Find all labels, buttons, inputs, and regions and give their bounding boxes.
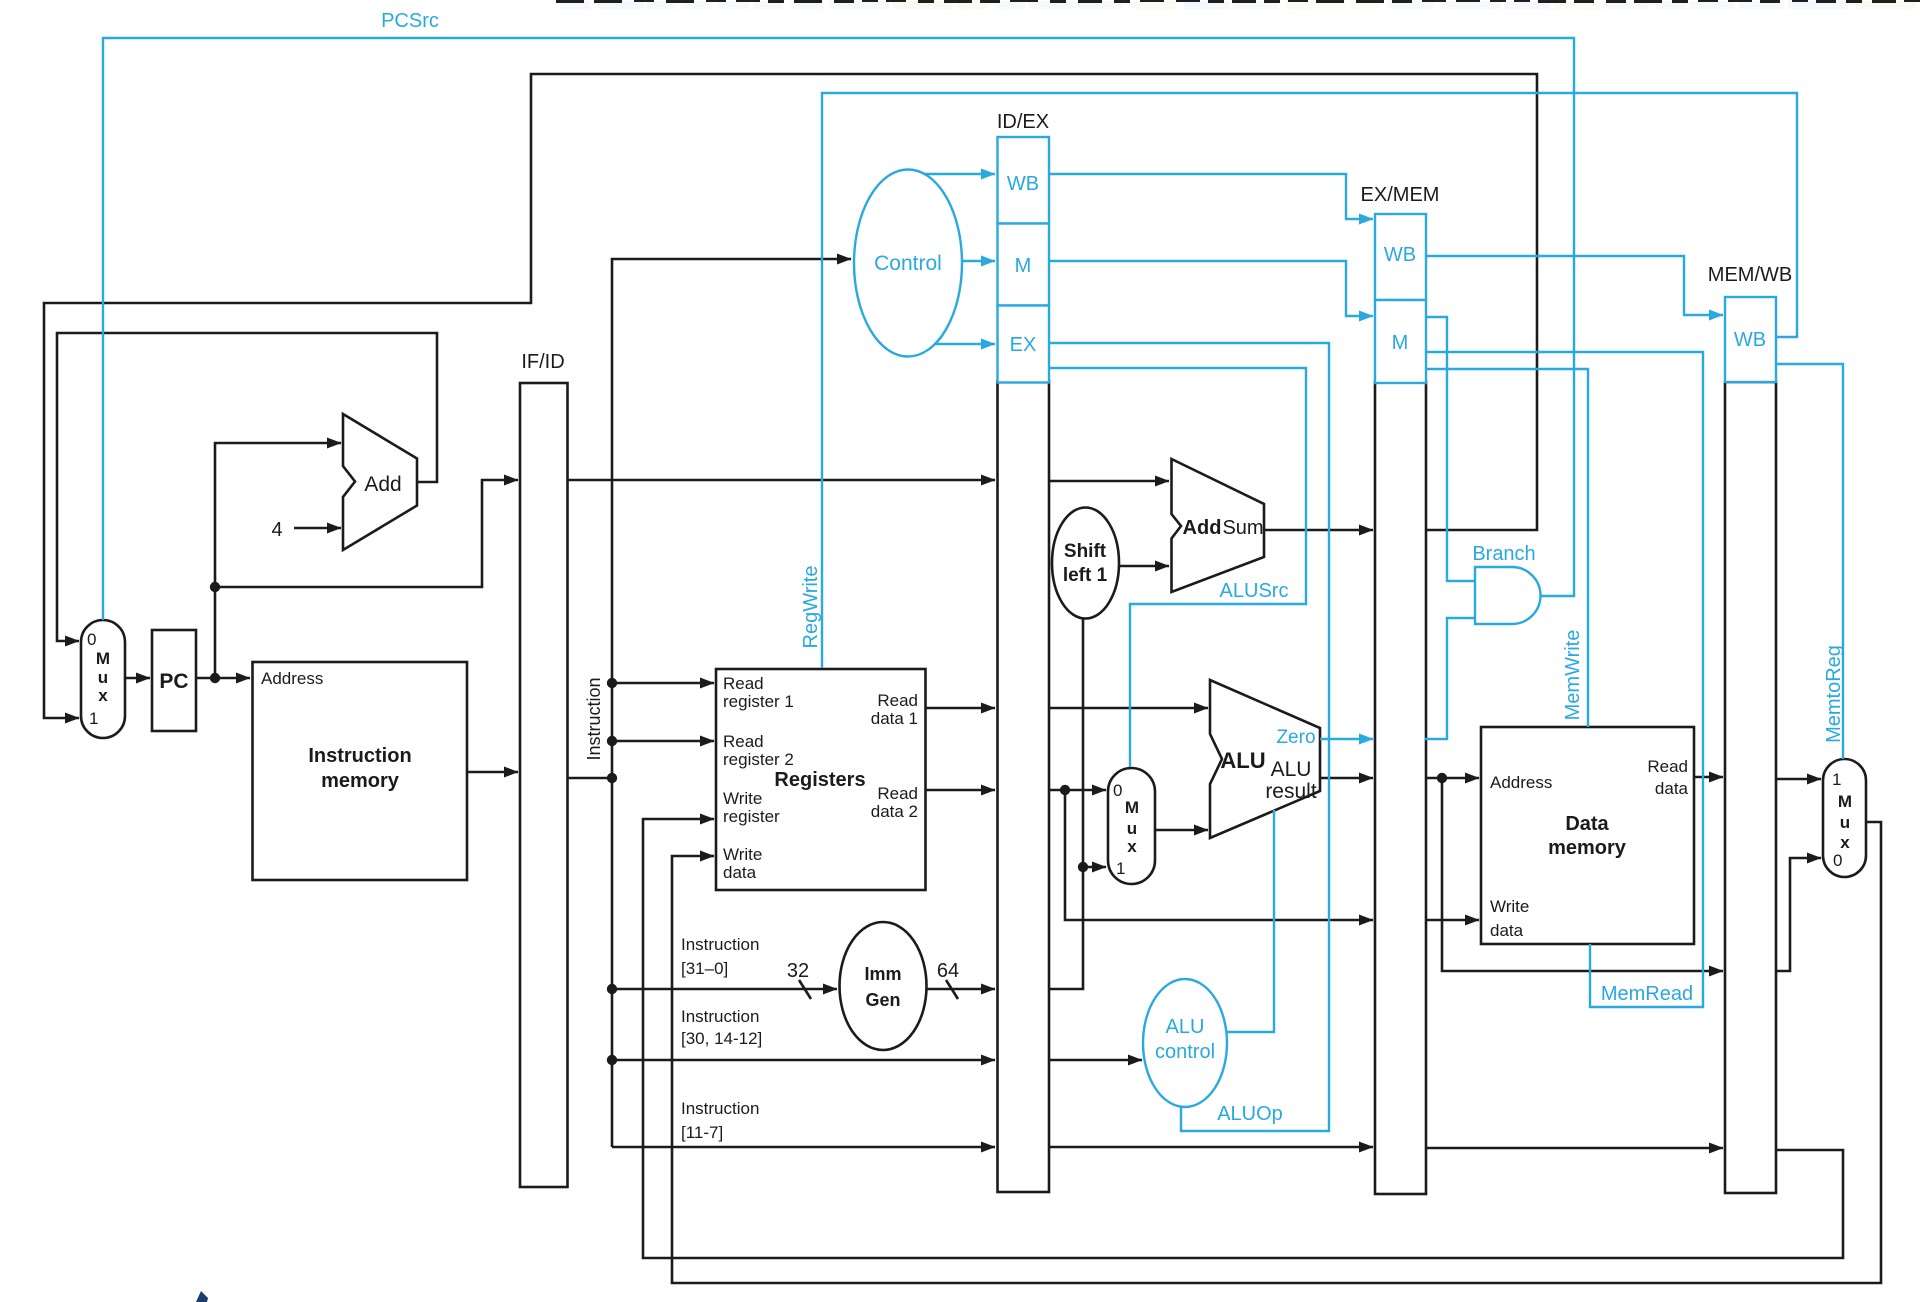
svg-text:Zero: Zero <box>1276 727 1315 748</box>
svg-text:PC: PC <box>159 670 188 693</box>
svg-text:MemRead: MemRead <box>1601 983 1693 1005</box>
wire ID/EX read data 2 to ALUSrc mux input 0 <box>1049 789 1106 792</box>
wire PC to instruction memory address <box>196 677 250 680</box>
wire ALU control to ALU operation input <box>1227 810 1275 1032</box>
svg-text:0: 0 <box>1113 781 1122 800</box>
svg-text:Address: Address <box>1490 773 1552 792</box>
wire imm Imm Gen to ID/EX <box>927 988 996 991</box>
wire instruction [31-0] to Imm Gen <box>612 988 837 991</box>
wire MEM/WB read data to write-back mux input 1 <box>1776 778 1821 781</box>
node read data 2 store junction <box>1060 785 1070 795</box>
wire ALUOp from ID/EX EX to ALU control <box>1049 343 1329 1131</box>
svg-text:memory: memory <box>1548 837 1627 859</box>
svg-text:u: u <box>98 668 108 687</box>
svg-text:[11-7]: [11-7] <box>681 1123 723 1142</box>
wire control to ID/EX M <box>961 260 995 262</box>
instruction memory <box>253 662 468 880</box>
svg-text:Instruction: Instruction <box>681 935 759 954</box>
svg-text:register 2: register 2 <box>723 750 794 769</box>
wire branch-target feedback EX/MEM to PC mux input 1 <box>44 74 1537 718</box>
svg-text:1: 1 <box>89 709 98 728</box>
svg-text:MemtoReg: MemtoReg <box>1823 645 1845 743</box>
svg-text:Registers: Registers <box>774 769 865 791</box>
wire Branch from EX/MEM M to AND gate <box>1425 317 1475 581</box>
EX/MEM M control box <box>1375 300 1426 383</box>
svg-text:Address: Address <box>261 669 323 688</box>
wire MemWrite from EX/MEM M to data memory <box>1425 369 1588 727</box>
wire read data 1 to ID/EX <box>926 707 996 710</box>
pipeline register IF/ID <box>520 383 568 1187</box>
wire constant 4 to Add input 2 <box>294 527 341 530</box>
svg-text:[31–0]: [31–0] <box>681 959 728 978</box>
svg-text:4: 4 <box>271 519 282 541</box>
svg-text:M: M <box>96 649 110 668</box>
svg-text:Write: Write <box>723 845 762 864</box>
svg-text:Read: Read <box>1647 757 1688 776</box>
svg-text:0: 0 <box>1833 851 1842 870</box>
node instruction bus tap read register 1 <box>607 678 617 688</box>
node ALU result junction <box>1437 773 1447 783</box>
adder Add Sum (branch target) <box>1172 459 1265 592</box>
svg-text:x: x <box>1840 833 1850 852</box>
svg-text:Instruction: Instruction <box>681 1007 759 1026</box>
svg-text:control: control <box>1155 1041 1215 1063</box>
svg-text:register: register <box>723 807 780 826</box>
node instruction bus tap [30,14-12] <box>607 1055 617 1065</box>
mux write-back (1/0) <box>1823 759 1866 877</box>
wire MEM/WB ALU result to write-back mux input 0 <box>1776 858 1821 971</box>
svg-text:result: result <box>1265 780 1317 803</box>
svg-text:data: data <box>1490 921 1524 940</box>
cursor artifact bottom left <box>196 1291 208 1302</box>
wire Zero from ALU to EX/MEM <box>1320 738 1373 740</box>
imm gen ellipse <box>840 922 927 1050</box>
AND gate (branch) <box>1475 567 1541 624</box>
wire ID/EX imm up to shift left 1 and ALUSrc mux input 1 <box>1049 618 1083 989</box>
svg-text:data: data <box>1655 779 1689 798</box>
wire ID/EX M to EX/MEM M <box>1049 261 1373 316</box>
svg-text:32: 32 <box>787 960 809 982</box>
wire MemRead from EX/MEM M to data memory <box>1425 352 1703 1007</box>
wire RegWrite from MEM/WB WB to registers <box>822 93 1797 668</box>
wire ID/EX PC to Add Sum input 1 <box>1049 480 1169 483</box>
data memory <box>1481 727 1694 944</box>
ALU <box>1210 680 1320 838</box>
svg-text:Write: Write <box>1490 897 1529 916</box>
adder Add (PC+4) <box>343 414 417 550</box>
wire instruction to read register 1 <box>612 682 714 685</box>
svg-text:Read: Read <box>723 674 764 693</box>
svg-text:Gen: Gen <box>865 990 900 1010</box>
wire ALUSrc mux to ALU input 2 <box>1155 829 1208 832</box>
ALU control ellipse <box>1143 979 1227 1107</box>
EX/MEM WB control box <box>1375 214 1426 300</box>
svg-text:EX: EX <box>1010 334 1037 356</box>
svg-text:M: M <box>1392 332 1409 354</box>
svg-text:Add: Add <box>1183 517 1222 539</box>
wire ID/EX rd to EX/MEM <box>1049 1146 1373 1149</box>
svg-text:u: u <box>1127 819 1137 838</box>
wire EX/MEM rd to MEM/WB <box>1426 1147 1723 1150</box>
svg-text:u: u <box>1840 813 1850 832</box>
svg-text:ALU: ALU <box>1220 748 1265 773</box>
svg-text:Instruction: Instruction <box>308 745 411 767</box>
svg-text:Imm: Imm <box>864 964 901 984</box>
wire PC tap up to Add input 1 <box>215 443 341 678</box>
pipeline register MEM/WB <box>1725 382 1776 1193</box>
svg-text:M: M <box>1838 792 1852 811</box>
svg-text:data 1: data 1 <box>871 709 918 728</box>
wire instruction to read register 2 <box>612 740 714 743</box>
control unit ellipse <box>854 170 962 357</box>
node instruction bus tap [31-0] <box>607 984 617 994</box>
node PC+4 branch junction <box>210 582 220 592</box>
svg-text:M: M <box>1125 798 1139 817</box>
wire ALU result down to MEM/WB <box>1442 778 1723 971</box>
svg-text:Branch: Branch <box>1472 543 1535 565</box>
wire data memory read data to MEM/WB <box>1694 776 1723 779</box>
wire IF/ID PC out to ID/EX <box>568 479 996 482</box>
svg-text:M: M <box>1015 255 1032 277</box>
svg-text:MemWrite: MemWrite <box>1562 630 1584 721</box>
svg-text:MEM/WB: MEM/WB <box>1708 264 1792 286</box>
svg-text:Shift: Shift <box>1064 541 1107 562</box>
svg-text:memory: memory <box>321 770 400 792</box>
svg-text:ALUSrc: ALUSrc <box>1220 580 1289 602</box>
svg-text:data 2: data 2 <box>871 802 918 821</box>
wire ID/EX WB to EX/MEM WB <box>1049 174 1373 219</box>
wire ALU result to EX/MEM <box>1320 777 1373 780</box>
svg-text:ID/EX: ID/EX <box>997 111 1049 133</box>
svg-text:1: 1 <box>1116 859 1125 878</box>
svg-text:x: x <box>1127 837 1137 856</box>
wire Zero from EX/MEM to AND gate <box>1425 618 1475 739</box>
svg-text:Write: Write <box>723 789 762 808</box>
svg-text:ALUOp: ALUOp <box>1217 1103 1283 1125</box>
svg-text:WB: WB <box>1734 329 1766 351</box>
svg-text:x: x <box>98 686 108 705</box>
wire EX/MEM write data to data memory <box>1426 919 1479 922</box>
node instruction bus tap read register 2 <box>607 736 617 746</box>
wire PC value to IF/ID <box>215 480 518 587</box>
wire read data 2 down to store path <box>1065 790 1373 920</box>
PC register <box>152 630 196 731</box>
svg-text:Add: Add <box>364 473 401 496</box>
svg-text:register 1: register 1 <box>723 692 794 711</box>
svg-text:WB: WB <box>1007 173 1039 195</box>
svg-text:PCSrc: PCSrc <box>381 10 439 32</box>
wire instruction [30,14-12] to ID/EX <box>612 1059 995 1062</box>
svg-text:RegWrite: RegWrite <box>800 566 822 649</box>
wire ID/EX funct to ALU control <box>1049 1059 1142 1062</box>
wire control to ID/EX EX <box>935 343 995 345</box>
mux ALUSrc (0/1) <box>1108 768 1155 884</box>
mux PC source (0/1) <box>81 620 125 738</box>
svg-text:left 1: left 1 <box>1063 565 1108 586</box>
svg-text:EX/MEM: EX/MEM <box>1361 184 1440 206</box>
svg-text:1: 1 <box>1832 770 1841 789</box>
svg-text:data: data <box>723 863 757 882</box>
wire instruction [11-7] to ID/EX <box>612 1146 995 1149</box>
wire MEM/WB rd to registers write register <box>643 819 1843 1258</box>
node instruction bus junction from IF/ID <box>607 773 617 783</box>
svg-text:0: 0 <box>87 630 96 649</box>
wire control to ID/EX WB <box>924 173 995 175</box>
ID/EX EX control box <box>998 306 1050 383</box>
ID/EX M control box <box>998 224 1050 306</box>
registers file <box>716 669 926 890</box>
svg-text:Data: Data <box>1565 813 1609 835</box>
wire PCSrc from branch AND gate to PC mux select <box>103 38 1574 620</box>
wire EX/MEM ALU result to data memory address <box>1426 777 1479 780</box>
ID/EX WB control box <box>998 137 1050 224</box>
svg-text:ALU: ALU <box>1271 758 1312 781</box>
shift left 1 ellipse <box>1052 508 1119 619</box>
svg-text:Read: Read <box>877 691 918 710</box>
wire instruction memory to IF/ID <box>467 771 518 774</box>
wire ID/EX read data 1 to ALU <box>1049 707 1208 710</box>
MEM/WB WB control box <box>1725 297 1776 382</box>
wire EX/MEM WB to MEM/WB WB <box>1426 256 1723 315</box>
wire MemtoReg from MEM/WB WB to write-back mux select <box>1777 364 1843 759</box>
svg-text:Instruction: Instruction <box>681 1099 759 1118</box>
wire write-back mux to registers write data <box>672 822 1881 1283</box>
svg-text:64: 64 <box>937 960 959 982</box>
pipeline register ID/EX <box>998 381 1050 1192</box>
wire mux to PC <box>125 677 150 680</box>
pipeline register EX/MEM <box>1375 382 1426 1194</box>
svg-text:IF/ID: IF/ID <box>521 351 564 373</box>
svg-text:WB: WB <box>1384 244 1416 266</box>
wire read data 2 to ID/EX <box>926 789 996 792</box>
svg-text:Sum: Sum <box>1222 517 1263 539</box>
wire shift left 1 to Add Sum input 2 <box>1119 565 1169 568</box>
wire PC+4 from Add to PC mux input 0 <box>57 333 437 641</box>
wire ALUSrc from ID/EX EX to ALUSrc mux select <box>1049 368 1306 767</box>
node immediate to mux junction <box>1078 862 1088 872</box>
wire instruction bus from IF/ID <box>568 777 613 780</box>
svg-text:Control: Control <box>874 252 942 275</box>
svg-text:[30, 14-12]: [30, 14-12] <box>681 1029 762 1048</box>
svg-text:Instruction: Instruction <box>584 677 604 760</box>
node PC output junction <box>210 673 220 683</box>
wire Add Sum to EX/MEM <box>1264 529 1373 532</box>
svg-text:Read: Read <box>877 784 918 803</box>
svg-text:ALU: ALU <box>1166 1016 1205 1038</box>
svg-text:Read: Read <box>723 732 764 751</box>
